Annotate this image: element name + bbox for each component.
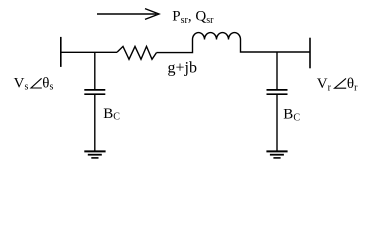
svg-text:BC: BC (283, 107, 300, 124)
resistor (series conductance g zigzag) (117, 46, 157, 59)
svg-text:BC: BC (103, 106, 120, 123)
wire: bus S to resistor (61, 51, 117, 53)
capacitor BC (right shunt) (267, 90, 288, 94)
svg-text:g+jb: g+jb (168, 60, 197, 77)
bus bar R (receiving end) (309, 38, 311, 69)
wire: left capacitor to ground (94, 94, 96, 151)
ground (right) (266, 151, 287, 158)
power-flow arrow (Psr, Qsr direction) (97, 9, 159, 20)
wire: left shunt branch (junction down to capacitor) (94, 52, 96, 90)
svg-text:θs: θs (42, 75, 53, 92)
svg-text:θr: θr (347, 76, 358, 93)
wire: right capacitor to ground (276, 94, 278, 151)
bus bar S (sending end) (60, 37, 62, 67)
wire: right shunt branch (junction down to capacitor) (276, 52, 278, 90)
wire: resistor to inductor (157, 40, 193, 53)
wire: inductor to bus R (241, 40, 311, 53)
ground (left) (84, 151, 105, 158)
inductor (series susceptance b coil) (193, 33, 241, 40)
label Vr angle theta-r (317, 76, 358, 93)
label Vs angle theta-s (14, 75, 54, 92)
capacitor BC (left shunt) (84, 90, 105, 94)
svg-text:Psr, Qsr: Psr, Qsr (172, 9, 214, 27)
svg-text:Vr: Vr (317, 76, 332, 93)
svg-text:Vs: Vs (14, 75, 29, 92)
